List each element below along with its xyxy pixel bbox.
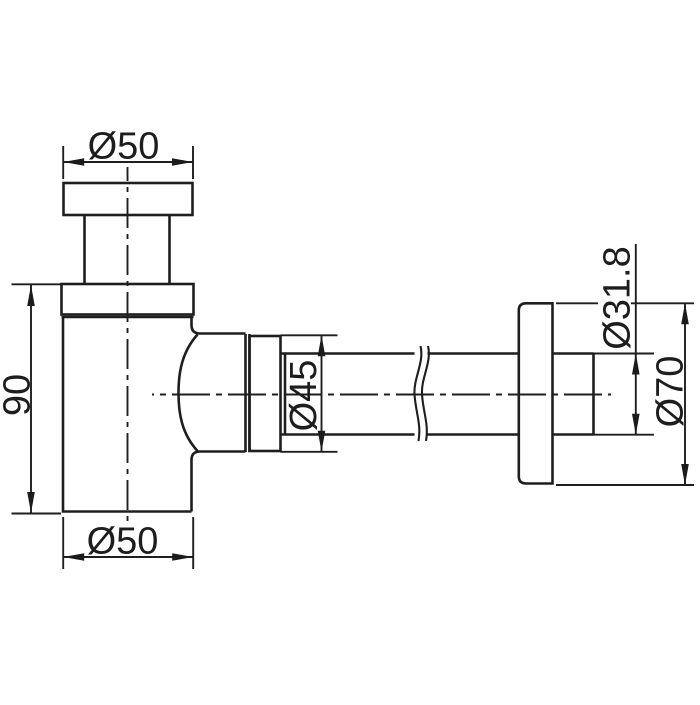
label 90 bbox=[0, 374, 39, 416]
outlet ring double line bbox=[246, 334, 250, 452]
svg-text:Ø50: Ø50 bbox=[88, 126, 160, 168]
pipe break symbol bbox=[414, 346, 428, 441]
horizontal centerline of outlet pipe bbox=[152, 394, 611, 396]
svg-text:Ø70: Ø70 bbox=[650, 356, 692, 428]
dimension Ø50 top: extension lines bbox=[63, 146, 193, 179]
wall flange bbox=[519, 303, 553, 483]
label Ø50 bottom bbox=[87, 521, 159, 563]
svg-text:Ø50: Ø50 bbox=[87, 521, 159, 563]
label Ø31.8 bbox=[597, 246, 639, 350]
vertical centerline of trap body bbox=[127, 167, 129, 525]
dimension Ø45: arrowheads bbox=[318, 335, 326, 452]
dimension Ø50 top: arrowheads bbox=[63, 158, 193, 166]
outlet pipe bbox=[281, 354, 519, 435]
svg-text:Ø31.8: Ø31.8 bbox=[597, 246, 639, 350]
dimension Ø31.8: extension lines bbox=[594, 244, 655, 435]
compression nut bbox=[250, 336, 281, 451]
svg-text:Ø45: Ø45 bbox=[283, 360, 325, 432]
wall socket bbox=[553, 354, 594, 435]
pipe joint line bbox=[284, 354, 287, 435]
dimension Ø50 bottom: extension lines bbox=[63, 517, 193, 569]
dimension 90 left: extension lines bbox=[12, 284, 62, 513]
outlet transition curve bbox=[179, 335, 198, 452]
label Ø45 bbox=[283, 360, 325, 432]
label Ø70 bbox=[650, 356, 692, 428]
dimension Ø70: arrowheads bbox=[681, 303, 689, 485]
dimension Ø70: extension lines bbox=[556, 303, 694, 485]
dimension Ø45: extension lines bbox=[281, 335, 338, 452]
dimension Ø31.8: arrowheads bbox=[632, 354, 640, 435]
label Ø50 top bbox=[88, 126, 160, 168]
dimension Ø50 bottom: arrowheads bbox=[63, 553, 193, 561]
body collar bbox=[62, 284, 194, 317]
cap flange bbox=[64, 183, 193, 215]
cap neck bbox=[85, 215, 170, 284]
svg-text:90: 90 bbox=[0, 374, 39, 416]
dimension 90 left: arrowheads bbox=[27, 285, 35, 513]
trap body bbox=[63, 317, 246, 512]
